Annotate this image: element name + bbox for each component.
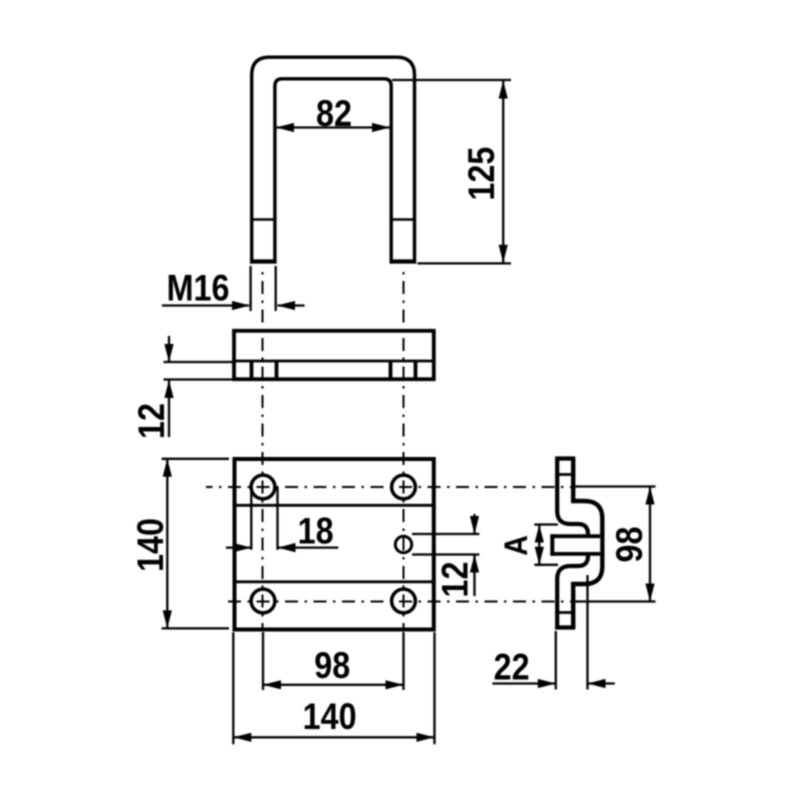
horizontal centerline bottom hole row	[223, 601, 573, 603]
profile top cap	[555, 456, 575, 460]
tongue (spring leaf through slot)	[550, 534, 600, 553]
profile tick top	[555, 473, 575, 476]
svg-text:125: 125	[462, 147, 503, 201]
hole top-right	[392, 475, 416, 499]
U-bolt left leg thread line	[250, 218, 276, 221]
dimension 12 arrows	[168, 336, 170, 362]
svg-text:140: 140	[303, 697, 357, 738]
U-bolt inner outline	[275, 79, 391, 264]
svg-text:98: 98	[610, 527, 651, 563]
hole bottom-right	[392, 589, 416, 613]
dimension 82 line	[276, 126, 390, 128]
tongue top edge	[550, 534, 600, 538]
svg-text:22: 22	[494, 647, 530, 688]
dimension 98 bottom extension lines	[262, 632, 264, 690]
U-bolt right leg thread line	[390, 218, 416, 221]
dimension 18 extension lines	[250, 488, 252, 550]
top plate hole edge lines	[250, 361, 254, 379]
dimension 22 extension lines	[555, 631, 557, 690]
dimension 12 (small hole) extension lines	[412, 533, 479, 535]
svg-text:12: 12	[132, 403, 173, 439]
profile bottom cap	[555, 625, 575, 629]
horizontal centerline top hole row	[206, 486, 571, 488]
dimension 98 bottom line	[263, 684, 404, 686]
M16 dimension left arrow	[162, 304, 249, 306]
profile tick bottom	[555, 611, 575, 614]
U-bolt left leg end cap	[250, 259, 277, 263]
vertical centerline left (through left leg and holes)	[262, 267, 264, 631]
U-bolt outer outline	[252, 57, 415, 263]
dimension 12 (small hole) arrows	[473, 514, 475, 534]
dimension 140 left extension lines	[162, 458, 229, 460]
small center hole	[395, 536, 411, 552]
tongue left end cap	[550, 534, 554, 556]
U-bolt right leg end cap	[390, 259, 417, 263]
vertical centerline right (through right leg and holes)	[403, 267, 405, 631]
svg-text:82: 82	[316, 94, 352, 135]
dimension 22 arrows	[492, 682, 554, 684]
hole bottom-left	[251, 589, 275, 613]
svg-text:18: 18	[298, 511, 334, 552]
tongue bottom edge	[550, 552, 600, 556]
M16 dimension right arrow	[278, 304, 305, 306]
dimension 125 extension line top	[392, 79, 511, 81]
svg-text:98: 98	[314, 646, 350, 687]
M16 extension line right	[275, 266, 277, 311]
dimension 18 arrows	[226, 546, 250, 548]
dimension A line with arrows	[538, 525, 540, 565]
M16 extension line left	[249, 266, 251, 311]
hole top-left	[251, 475, 275, 499]
square plate upper band line	[233, 504, 435, 507]
profile inner boundary (left)	[557, 459, 588, 628]
dimension A extension lines	[534, 523, 558, 525]
dimension 125 extension line bottom	[418, 262, 512, 264]
square plate lower band line	[233, 580, 435, 583]
dimension 140 bottom line	[233, 736, 434, 738]
dimension 140 bottom extension lines	[232, 632, 234, 744]
svg-text:M16: M16	[167, 269, 230, 310]
svg-text:140: 140	[131, 518, 172, 572]
dimension 98 right extension lines	[571, 485, 656, 487]
square plate outline	[235, 459, 434, 630]
top plate outline	[234, 331, 434, 379]
dimension 98 right line	[649, 487, 651, 602]
dimension 125 line	[502, 81, 504, 263]
top plate divider line	[233, 360, 434, 363]
dimension 12 extension lines (plate thickness)	[164, 361, 234, 363]
profile outer boundary (right)	[573, 459, 602, 628]
svg-text:12: 12	[435, 562, 476, 598]
dimension 140 left line	[166, 459, 168, 629]
svg-text:A: A	[498, 535, 534, 556]
